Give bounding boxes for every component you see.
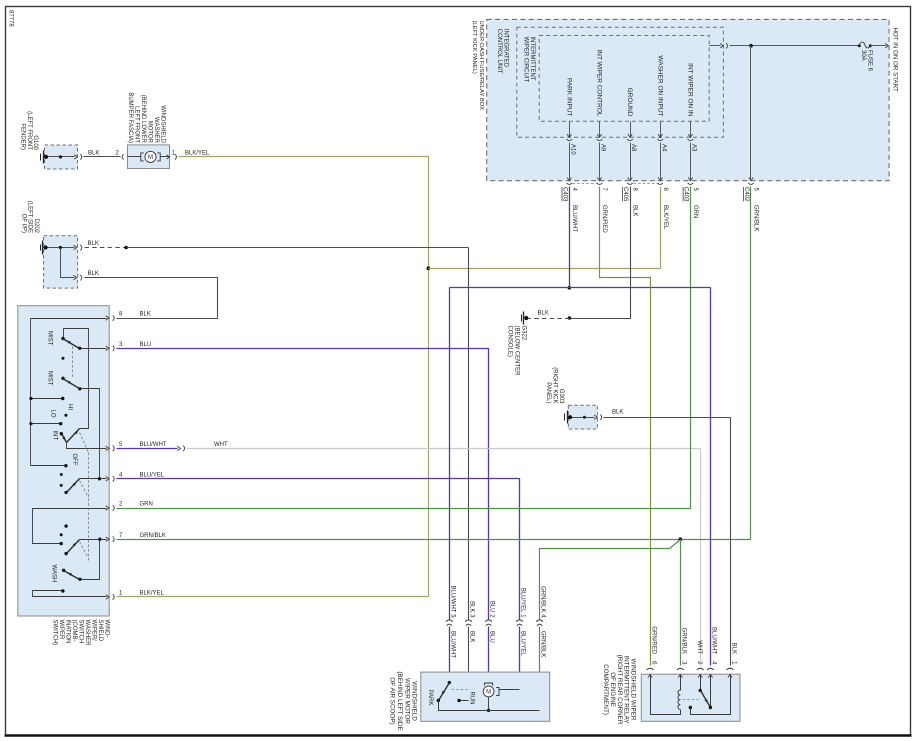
connector arrow washer motor pin2 — [128, 155, 131, 159]
signal labels inside inner box — [565, 49, 693, 116]
svg-text:PARK: PARK — [427, 690, 433, 706]
svg-text:M: M — [148, 155, 153, 161]
svg-text:OFF: OFF — [71, 454, 77, 466]
svg-text:COMPARTMENT): COMPARTMENT) — [602, 664, 609, 715]
svg-text:BLK: BLK — [140, 312, 151, 318]
connector cup washer motor pin1 — [175, 154, 177, 160]
svg-text:G303: G303 — [558, 389, 564, 404]
junction dot G322 — [524, 316, 528, 320]
svg-text:MIST: MIST — [47, 371, 53, 386]
svg-text:A3: A3 — [690, 144, 696, 152]
feed wire to fuse — [730, 45, 860, 47]
svg-text:BLK/YEL: BLK/YEL — [185, 150, 210, 156]
svg-text:87778: 87778 — [7, 10, 13, 27]
motor bottom bus — [439, 701, 540, 711]
svg-text:GRN/BLK: GRN/BLK — [140, 533, 166, 539]
connector cup washer motor pin2 — [122, 154, 124, 160]
connector arrow G303 — [594, 415, 597, 419]
switch internal OFF row — [31, 465, 66, 467]
wiper motor wire labels below connectors — [449, 631, 545, 658]
wire BLK/YEL washer motor horizontal — [179, 156, 429, 158]
park dashed link — [452, 689, 471, 691]
svg-text:A4: A4 — [660, 144, 666, 152]
wires from A-connector to box bottom — [570, 143, 691, 180]
ground G303 symbol — [565, 411, 568, 424]
switch pin arrows at box edge — [106, 316, 109, 599]
svg-text:BLK: BLK — [632, 205, 638, 216]
svg-text:SWITCH): SWITCH) — [51, 620, 57, 646]
relay lever — [701, 691, 711, 708]
intermittent wiper circuit label — [523, 37, 536, 83]
relay coil — [678, 690, 680, 710]
wire BLU/WHT drop to relay — [710, 288, 712, 666]
ground G322 symbol — [522, 312, 524, 325]
svg-text:LEFT FRONT: LEFT FRONT — [134, 106, 140, 143]
wire BLK/YEL riser to C405 pin6 — [660, 187, 662, 269]
svg-text:BLK: BLK — [88, 241, 99, 247]
switch internal pin8 line — [31, 318, 107, 320]
C-connector arrows at big box edge — [567, 178, 753, 181]
junction dot GRN/BLK — [679, 537, 683, 541]
svg-text:INT WIPER ON IN: INT WIPER ON IN — [687, 63, 694, 117]
svg-text:BLU/WHT: BLU/WHT — [140, 442, 167, 448]
wiper motor box — [421, 672, 550, 721]
wiper motor label — [389, 671, 418, 730]
wire WHT drop to relay — [700, 449, 702, 666]
svg-text:BLK: BLK — [538, 311, 549, 317]
motor bottom junction dot — [487, 709, 490, 712]
ICU inner box — [539, 36, 709, 122]
switch internal pin4 line — [80, 478, 107, 480]
lever pin7-row — [67, 540, 80, 554]
wire BLU/WHT horizontal — [450, 287, 711, 289]
relay pin numbers — [650, 661, 736, 665]
svg-text:BLK: BLK — [730, 643, 736, 654]
svg-text:BLU/WHT: BLU/WHT — [449, 631, 455, 658]
switch internal inner rect top — [64, 329, 89, 429]
switch internal pin2 loop — [33, 509, 107, 544]
connector arrow G100 out — [74, 155, 77, 159]
svg-text:SHIELD: SHIELD — [97, 620, 103, 642]
switch internal mist2 link — [80, 389, 100, 479]
svg-text:BUMPER FASCIA): BUMPER FASCIA) — [127, 92, 133, 143]
switch label — [51, 620, 109, 647]
svg-text:OF AIR SCOOP): OF AIR SCOOP) — [389, 677, 396, 724]
switch internal pin5 line — [67, 443, 107, 449]
A pin labels — [569, 144, 696, 155]
svg-text:BLU/WHT: BLU/WHT — [449, 586, 455, 613]
svg-text:30A: 30A — [860, 50, 866, 61]
wire BLK vertical to wiper motor — [468, 248, 470, 620]
svg-text:GRN/BLK: GRN/BLK — [681, 628, 687, 654]
under-dash fuse/relay box (big dashed) — [487, 19, 889, 180]
svg-text:WHT: WHT — [214, 442, 228, 448]
wiper/washer combination switch box — [18, 306, 109, 616]
wiper motor inline connectors — [446, 620, 543, 626]
border frame bottom heavy line — [5, 734, 912, 737]
svg-text:A9: A9 — [600, 144, 606, 152]
wire BLU switch pin3 — [117, 349, 489, 620]
wire BLK/YEL to switch pin1 — [117, 596, 429, 598]
switch internal left bus — [30, 319, 32, 466]
svg-text:BLU: BLU — [489, 631, 495, 643]
svg-text:(LEFT KICK PANEL): (LEFT KICK PANEL) — [471, 21, 477, 74]
wire BLK ground from C405 pin8 — [570, 187, 631, 319]
connector cup D202 bottom — [80, 275, 82, 281]
svg-text:RUN: RUN — [468, 692, 474, 705]
connector arrow D202 bottom — [74, 275, 77, 279]
svg-text:GRN/BLK: GRN/BLK — [540, 631, 546, 657]
park lever — [439, 683, 450, 701]
wire BLK G100 to washer motor — [84, 156, 121, 158]
under-dash box label — [471, 21, 484, 111]
park switch contact dot — [448, 681, 451, 684]
connector cup G100 — [80, 154, 82, 160]
svg-text:UNDER-DASH FUSE/RELAY BOX: UNDER-DASH FUSE/RELAY BOX — [478, 21, 484, 111]
A-connector cups — [567, 139, 694, 141]
switch position labels — [47, 331, 78, 582]
wire BLU/WHT switch pin5 stub — [117, 448, 178, 450]
svg-text:(COMB-: (COMB- — [71, 620, 77, 642]
junction dot BLK splice — [124, 246, 128, 250]
wire BLU/YEL into motor — [499, 689, 520, 691]
feed cup — [726, 43, 728, 49]
switch pin numbers — [119, 312, 123, 597]
svg-text:WIPER/: WIPER/ — [90, 620, 96, 642]
svg-text:C403: C403 — [561, 187, 567, 202]
windshield washer motor label — [127, 92, 166, 143]
svg-text:HI: HI — [67, 404, 73, 410]
junction dot feed/C402 — [749, 44, 753, 48]
svg-text:BLU/WHT: BLU/WHT — [711, 627, 717, 654]
svg-text:(LEFT FRONT: (LEFT FRONT — [26, 111, 32, 150]
ICU internal wires to A-connector — [570, 122, 691, 137]
svg-text:WIPER MOTOR: WIPER MOTOR — [403, 678, 410, 724]
svg-text:(BEHIND LEFT SIDE: (BEHIND LEFT SIDE — [396, 671, 403, 730]
ground G303 connector box — [568, 405, 597, 429]
wire C402 inside box — [750, 46, 752, 180]
wiper motor wire labels above connectors — [449, 586, 545, 614]
svg-text:OF I/P): OF I/P) — [21, 214, 27, 233]
inline connector cup pin5 — [183, 446, 185, 452]
svg-text:WIPER: WIPER — [58, 620, 64, 640]
svg-text:BLK: BLK — [612, 410, 623, 416]
fuse 6 symbol — [858, 42, 872, 48]
svg-text:LO: LO — [50, 410, 56, 418]
intermittent wiper circuit box — [517, 27, 724, 137]
fuse label — [860, 50, 873, 72]
svg-text:FENDER): FENDER) — [19, 123, 25, 150]
C-connector cups below big box — [567, 183, 754, 185]
ground D202 symbol — [41, 241, 43, 255]
svg-text:G100: G100 — [32, 135, 38, 150]
wire D202 internal top — [43, 247, 75, 249]
park lever bottom dot — [437, 699, 440, 702]
svg-text:BLU: BLU — [489, 601, 495, 613]
svg-text:INT WIPER CONTROL: INT WIPER CONTROL — [596, 49, 603, 116]
svg-text:WIND-: WIND- — [103, 620, 109, 638]
C-connector dashed pair links — [573, 183, 658, 185]
lever INT arm2 — [67, 429, 80, 443]
svg-text:BLU/WHT: BLU/WHT — [571, 205, 577, 232]
wire BLK dashed to G322 — [529, 318, 570, 320]
svg-text:(BELOW CENTER: (BELOW CENTER — [514, 326, 520, 377]
wire color labels below C-connectors — [571, 205, 759, 233]
svg-text:A10: A10 — [569, 144, 575, 155]
wire GRN/BLK switch pin7 — [117, 539, 751, 541]
switch mechanical dashed links — [73, 347, 89, 561]
svg-text:BLK: BLK — [88, 271, 99, 277]
svg-text:(BEHIND LOWER: (BEHIND LOWER — [140, 95, 146, 144]
lever arrowheads — [62, 339, 79, 576]
junction dot D202 ground — [44, 245, 48, 249]
junction dot G303 ground — [568, 415, 572, 419]
run contact wire — [459, 700, 469, 702]
wiper motor wires below connectors — [450, 627, 540, 711]
washer motor box — [128, 145, 170, 169]
svg-text:D202: D202 — [33, 219, 39, 234]
svg-text:INTEGRATED: INTEGRATED — [503, 29, 509, 68]
wiper motor pin numbers above connectors — [449, 614, 545, 618]
svg-text:BLK: BLK — [469, 601, 475, 612]
junction dot G303 inner — [583, 416, 586, 419]
washer motor M symbol — [128, 151, 170, 162]
lever WASH — [64, 571, 80, 580]
relay contact dot top — [699, 689, 702, 692]
switch internal LO row — [31, 423, 61, 425]
relay wire labels — [650, 626, 736, 654]
wire GRN switch pin2 — [117, 187, 691, 509]
wire BLU/WHT from C403 pin4 — [569, 187, 571, 288]
svg-text:C402: C402 — [743, 187, 749, 202]
svg-text:MIST: MIST — [47, 331, 53, 346]
wire GRN/BLK drop to relay — [680, 540, 682, 666]
svg-text:CONSOLE): CONSOLE) — [507, 326, 513, 357]
svg-text:GRN: GRN — [140, 502, 153, 508]
relay connector cups — [647, 668, 734, 670]
switch internal wash link — [80, 540, 100, 580]
integrated control unit label — [496, 29, 509, 74]
D202 label — [21, 201, 40, 234]
switch internal pin3 line — [80, 348, 107, 350]
relay lever bottom dot — [709, 706, 712, 709]
svg-text:BLU/YEL: BLU/YEL — [140, 472, 165, 478]
wire D202 internal branch — [61, 248, 75, 278]
relay internal wires — [651, 676, 731, 715]
switch internal HI row — [31, 398, 63, 400]
wire fuse to hot feed — [871, 45, 887, 47]
svg-text:WASH: WASH — [51, 565, 57, 583]
junction dot BLU/WHT — [568, 286, 572, 290]
connector cup D202 top — [80, 245, 82, 251]
wire BLU/YEL switch pin4 — [117, 479, 520, 620]
svg-text:G322: G322 — [520, 326, 526, 341]
svg-text:INATION: INATION — [64, 620, 70, 644]
wire BLU/WHT drop to wiper motor — [449, 288, 451, 620]
wire BLK D202 lower to switch pin8 — [85, 278, 218, 319]
wire BLK/YEL branch to C405 — [429, 268, 661, 270]
wire GRN/BLK jog to motor — [540, 540, 681, 620]
switch levers — [62, 339, 80, 580]
lever MIST1 — [63, 339, 80, 349]
junction dot G100 — [44, 155, 48, 159]
C-connector names — [561, 187, 749, 202]
feed arrow at circuit box edge — [720, 44, 723, 48]
relay pin entry arrows — [648, 674, 732, 677]
C-connector pin numbers — [571, 188, 759, 192]
svg-text:WINDSHIELD: WINDSHIELD — [160, 105, 166, 143]
relay common dot — [689, 706, 692, 709]
svg-text:WASHER: WASHER — [153, 117, 159, 144]
svg-text:WHT: WHT — [696, 640, 702, 654]
svg-text:C405: C405 — [622, 187, 628, 202]
wire G100 internal — [43, 156, 75, 158]
svg-text:GRN/RED: GRN/RED — [601, 205, 607, 233]
wire BLK from splice to motor drop — [127, 247, 469, 249]
switch pin cups outside box — [113, 315, 115, 600]
svg-text:GROUND: GROUND — [626, 88, 633, 117]
intermittent relay box — [641, 674, 740, 721]
junction dot G100 inner — [59, 155, 62, 158]
lever MIST2 — [63, 379, 80, 389]
relay label — [602, 655, 637, 725]
run contact dot — [457, 699, 460, 702]
svg-text:BLU/YEL: BLU/YEL — [520, 588, 526, 613]
switch contact dots — [29, 337, 101, 593]
ground G100 connector box — [45, 145, 78, 169]
svg-text:BLU/YEL: BLU/YEL — [520, 631, 526, 656]
svg-text:GRN/BLK: GRN/BLK — [753, 205, 759, 231]
svg-text:GRN: GRN — [692, 205, 698, 218]
svg-text:(RIGHT KICK: (RIGHT KICK — [552, 367, 558, 403]
svg-text:MOTOR: MOTOR — [147, 121, 153, 144]
wire WHT long horizontal — [187, 448, 701, 450]
G100 label — [19, 111, 38, 151]
svg-text:INT: INT — [52, 431, 58, 441]
G322 label — [507, 326, 527, 377]
svg-text:PANEL): PANEL) — [545, 382, 551, 403]
wire G303 internal — [567, 417, 595, 419]
switch internal pin7 line — [80, 539, 107, 541]
svg-text:WASHER ON INPUT: WASHER ON INPUT — [656, 55, 663, 116]
svg-text:M: M — [486, 690, 491, 696]
junction BLK/YEL — [427, 266, 431, 270]
svg-text:SWITCH: SWITCH — [77, 620, 83, 644]
relay lever arrowhead — [705, 699, 710, 704]
svg-text:FUSE 6: FUSE 6 — [866, 50, 872, 72]
G303 label — [545, 367, 564, 404]
motor M symbol wiper — [483, 683, 499, 711]
svg-text:PARK INPUT: PARK INPUT — [565, 78, 572, 117]
relay dashed link — [683, 699, 699, 701]
switch internal pin1 loop — [33, 591, 107, 597]
connector cup G303 — [600, 414, 602, 420]
hot feed arrowhead — [885, 44, 888, 48]
svg-text:BLK: BLK — [469, 631, 475, 642]
connector arrow D202 top — [74, 245, 77, 249]
svg-text:WINDSHIELD: WINDSHIELD — [411, 681, 418, 721]
svg-text:BLK: BLK — [88, 150, 99, 156]
svg-text:BLU: BLU — [140, 342, 152, 348]
wire GRN/RED from C403 pin7 — [600, 187, 651, 666]
svg-text:WASHER: WASHER — [84, 620, 90, 647]
lever INT arm1 — [62, 434, 67, 443]
wire BLK G303 to relay — [604, 418, 731, 666]
ground G100 symbol — [41, 151, 44, 164]
ground D202 connector box — [44, 236, 78, 288]
switch wire name labels — [140, 312, 167, 597]
park lever arrowhead — [440, 691, 445, 696]
wire GRN/BLK from C402 pin5 — [750, 187, 752, 540]
svg-text:BLK/YEL: BLK/YEL — [140, 591, 165, 597]
svg-text:HOT IN ON OR START: HOT IN ON OR START — [892, 28, 899, 93]
ICU top feed wire — [710, 45, 721, 47]
connector arrow washer motor pin1 — [167, 155, 170, 159]
junction dot D202 inner — [59, 246, 62, 249]
A-connector arrows — [567, 134, 693, 137]
junction dot BLK ground splice — [568, 316, 572, 320]
inline connector arrow pin5 — [177, 446, 180, 450]
lever OFF-row — [67, 479, 80, 493]
svg-text:GRN/RED: GRN/RED — [650, 626, 656, 654]
svg-text:BLK/YEL: BLK/YEL — [662, 205, 668, 230]
svg-text:C403: C403 — [682, 187, 688, 202]
svg-text:GRN/BLK: GRN/BLK — [540, 586, 546, 612]
svg-text:INTERMITTENT: INTERMITTENT — [529, 37, 535, 81]
svg-text:WIPER CIRCUIT: WIPER CIRCUIT — [523, 37, 529, 83]
svg-text:CONTROL UNIT: CONTROL UNIT — [496, 29, 502, 74]
wire BLK/YEL vertical drop — [428, 157, 430, 597]
wire BLK dashed from D202 — [85, 247, 127, 249]
